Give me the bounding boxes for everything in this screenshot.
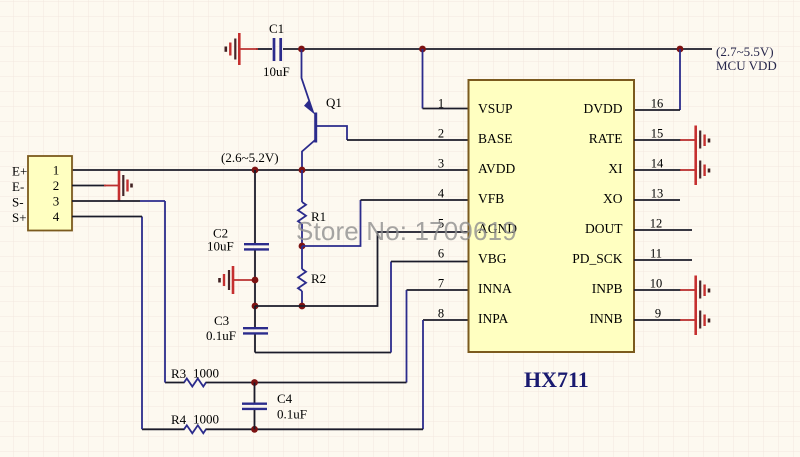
ground symbol at C2 xyxy=(220,266,256,294)
svg-text:VFB: VFB xyxy=(478,191,504,206)
node junction R2 bottom xyxy=(299,303,306,310)
resistor R2 xyxy=(298,246,326,306)
node junction Q1/AVDD xyxy=(299,167,306,174)
svg-text:DVDD: DVDD xyxy=(584,101,623,116)
svg-text:C1: C1 xyxy=(269,21,284,36)
svg-text:7: 7 xyxy=(438,277,444,291)
svg-text:INPB: INPB xyxy=(592,281,623,296)
svg-text:S+: S+ xyxy=(12,210,27,225)
IC U1 HX711 box xyxy=(469,80,635,352)
svg-text:0.1uF: 0.1uF xyxy=(277,407,307,422)
svg-text:R3: R3 xyxy=(171,366,186,381)
svg-text:INPA: INPA xyxy=(478,311,509,326)
svg-text:Q1: Q1 xyxy=(326,95,342,110)
svg-text:VBG: VBG xyxy=(478,251,507,266)
wire INPB pin10 stub xyxy=(634,289,681,291)
svg-text:XO: XO xyxy=(603,191,623,206)
wire S+ vertical xyxy=(141,217,143,430)
svg-text:HX711: HX711 xyxy=(524,367,589,392)
svg-text:AVDD: AVDD xyxy=(478,161,516,176)
svg-text:DOUT: DOUT xyxy=(585,221,623,236)
node junction C2/AVDD xyxy=(252,167,259,174)
IC right pin labels xyxy=(572,101,623,326)
ground symbol at INPB/INNB xyxy=(680,276,709,336)
node junction DVDD branch xyxy=(677,46,684,53)
svg-text:Store No: 1709619: Store No: 1709619 xyxy=(296,216,517,246)
connector J1 box xyxy=(28,156,72,231)
svg-text:R4: R4 xyxy=(171,412,187,427)
ground symbol at E- xyxy=(104,171,132,201)
svg-text:XI: XI xyxy=(608,161,623,176)
wire XI pin14 stub xyxy=(634,169,681,171)
wire top supply rail xyxy=(256,48,712,50)
svg-text:4: 4 xyxy=(53,209,60,224)
wire DVDD pin16 riser xyxy=(679,49,681,110)
wire PD_SCK pin11 stub xyxy=(634,259,692,261)
svg-text:C4: C4 xyxy=(277,391,293,406)
svg-text:10: 10 xyxy=(650,277,663,291)
svg-text:R2: R2 xyxy=(311,271,326,286)
svg-text:MCU VDD: MCU VDD xyxy=(716,58,777,73)
capacitor C3 xyxy=(206,306,268,353)
resistor R1 xyxy=(298,170,326,246)
capacitor C1 xyxy=(263,21,290,79)
wire Q1 base to BASE pin2 xyxy=(347,139,468,141)
wire VSUP pin1 riser xyxy=(422,49,424,109)
svg-text:10uF: 10uF xyxy=(263,64,290,79)
svg-text:1: 1 xyxy=(438,97,444,111)
node junction C2 bottom xyxy=(252,303,259,310)
connector pin numbers xyxy=(53,163,60,225)
svg-text:(2.6~5.2V): (2.6~5.2V) xyxy=(221,150,279,165)
right pin numbers xyxy=(650,97,664,321)
svg-text:9: 9 xyxy=(655,307,661,321)
svg-text:(2.7~5.5V): (2.7~5.5V) xyxy=(716,44,774,59)
svg-text:BASE: BASE xyxy=(478,131,513,146)
svg-text:2: 2 xyxy=(53,178,60,193)
svg-text:S-: S- xyxy=(12,195,24,210)
svg-text:INNB: INNB xyxy=(590,311,623,326)
wire C3 bottom to VBG pin6 xyxy=(255,352,391,354)
svg-text:6: 6 xyxy=(438,247,444,261)
left pin numbers xyxy=(438,97,445,321)
connector labels xyxy=(12,164,27,226)
svg-text:14: 14 xyxy=(651,157,664,171)
wire AVDD rail xyxy=(72,169,468,171)
wire VFB from R1/R2 node to pin4 xyxy=(302,200,361,246)
svg-text:10uF: 10uF xyxy=(207,239,234,254)
svg-text:RATE: RATE xyxy=(589,131,623,146)
svg-text:E-: E- xyxy=(12,179,24,194)
wire R3 line xyxy=(165,382,185,384)
capacitor C2 xyxy=(207,170,269,306)
svg-text:15: 15 xyxy=(651,127,664,141)
node junction R3/C4 xyxy=(251,379,258,386)
wire RATE pin15 stub xyxy=(634,139,681,141)
wire INPA pin8 to R4 xyxy=(423,319,468,321)
transistor Q1 xyxy=(302,49,348,170)
node junction pin1 branch xyxy=(419,46,426,53)
wire XO pin13 stub xyxy=(634,199,680,201)
svg-text:12: 12 xyxy=(650,217,663,231)
svg-text:1: 1 xyxy=(53,163,60,178)
wire DOUT pin12 stub xyxy=(634,229,692,231)
svg-text:PD_SCK: PD_SCK xyxy=(572,251,623,266)
svg-text:C3: C3 xyxy=(214,313,229,328)
svg-text:E+: E+ xyxy=(12,164,27,179)
resistor R4 xyxy=(171,412,219,434)
svg-text:1000: 1000 xyxy=(193,412,219,427)
ground symbol at C1 xyxy=(226,33,258,65)
node junction gnd stem/C2 xyxy=(252,277,259,284)
svg-text:8: 8 xyxy=(438,307,444,321)
capacitor C4 xyxy=(242,383,307,430)
wire INNB pin9 stub xyxy=(634,319,681,321)
wire R4 line xyxy=(142,428,185,430)
svg-text:11: 11 xyxy=(650,247,662,261)
svg-text:3: 3 xyxy=(53,194,60,209)
label (2.7~5.5V) MCU VDD xyxy=(716,44,777,73)
svg-text:VSUP: VSUP xyxy=(478,101,513,116)
resistor R3 xyxy=(171,366,219,387)
wire E- to ground xyxy=(72,185,106,187)
node junction at C1 output xyxy=(298,46,305,53)
wire S- horizontal xyxy=(72,200,140,202)
svg-text:4: 4 xyxy=(438,187,445,201)
svg-text:16: 16 xyxy=(651,97,664,111)
IC left pin labels xyxy=(478,101,517,326)
wire ground node to AGND riser xyxy=(255,232,468,306)
svg-text:13: 13 xyxy=(651,187,664,201)
svg-text:2: 2 xyxy=(438,127,444,141)
wire S- vertical xyxy=(164,201,166,383)
node junction R4/C4 xyxy=(251,426,258,433)
svg-text:1000: 1000 xyxy=(193,366,219,381)
wire INNA pin7 to R3 xyxy=(407,289,469,291)
wire S+ horizontal xyxy=(72,216,142,218)
svg-text:0.1uF: 0.1uF xyxy=(206,328,236,343)
ground symbol at RATE/XI xyxy=(680,126,709,186)
node junction R1/R2 xyxy=(299,243,306,250)
svg-text:INNA: INNA xyxy=(478,281,512,296)
svg-text:3: 3 xyxy=(438,157,444,171)
